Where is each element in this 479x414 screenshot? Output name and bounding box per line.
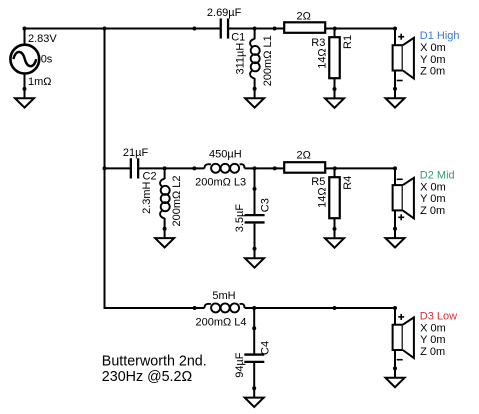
svg-text:D2 Mid: D2 Mid <box>420 170 455 182</box>
svg-text:X 0m: X 0m <box>420 181 446 193</box>
svg-text:Z 0m: Z 0m <box>420 66 445 78</box>
ground at D1 <box>386 89 405 108</box>
inductor L2 <box>160 168 170 228</box>
wire: middle horizontal net bus to C2 left plate <box>105 167 131 169</box>
svg-text:C3: C3 <box>260 198 272 212</box>
caption line 1: Butterworth 2nd. <box>102 354 207 370</box>
capacitor C2 <box>131 158 138 178</box>
node dot: bus junction middle <box>103 166 107 170</box>
label 5mH <box>212 290 235 302</box>
D2 plus sign <box>398 214 404 220</box>
node dot: R3 left pin <box>273 27 277 31</box>
node dot: speaker D2 top pin <box>393 166 397 170</box>
label C4 (rotated) <box>259 341 271 355</box>
D2 minus sign <box>397 178 403 180</box>
node dot: speaker D1 top pin <box>393 27 397 31</box>
node dot: C3 top pin <box>253 187 257 191</box>
svg-text:Butterworth 2nd.: Butterworth 2nd. <box>102 354 207 370</box>
label R5 <box>311 176 325 188</box>
svg-text:200mΩ L1: 200mΩ L1 <box>262 35 274 86</box>
node dot: speaker D2 bottom pin <box>393 227 397 231</box>
svg-text:Y 0m: Y 0m <box>420 54 445 66</box>
speaker D2 <box>393 168 414 228</box>
label 450µH <box>209 149 242 161</box>
svg-text:14Ω: 14Ω <box>317 48 329 68</box>
svg-text:200mΩ L2: 200mΩ L2 <box>171 175 183 226</box>
node dot: C3 bottom pin <box>253 247 257 251</box>
D3 minus sign <box>397 359 403 361</box>
svg-text:R1: R1 <box>342 35 354 49</box>
svg-text:R5: R5 <box>311 176 325 188</box>
label R3 <box>311 37 325 49</box>
label D3 Z 0m <box>420 346 445 358</box>
node dot: R4 bottom pin <box>333 227 337 231</box>
svg-text:Y 0m: Y 0m <box>420 334 445 346</box>
wire: top horizontal net from C1 right plate to speaker D1 <box>229 28 395 30</box>
inductor L3 <box>204 164 244 173</box>
svg-text:2.3mH: 2.3mH <box>141 181 153 213</box>
inductor L1 <box>250 29 260 89</box>
wire: middle horizontal net C2 right plate to L3 coil <box>139 167 205 169</box>
node dot: C2 right pin / L2 top <box>163 166 167 170</box>
label 2.3mH (rotated) <box>141 181 153 213</box>
node dot: L4 left pin <box>193 306 197 310</box>
node dot: C4 top pin <box>252 326 256 330</box>
label C3 (rotated) <box>260 198 272 212</box>
svg-text:D1 High: D1 High <box>420 30 460 42</box>
node dot: bus junction top <box>103 27 107 31</box>
label 311µH (rotated) <box>235 43 247 75</box>
node dot: R5 right pin / R4 top <box>333 166 337 170</box>
node dot: speaker D1 bottom pin <box>393 87 397 91</box>
label D2 Mid <box>420 170 455 182</box>
label 3.5µF (rotated) <box>234 204 246 233</box>
label 200mΩ L3 <box>195 177 246 189</box>
label 2.69µF <box>207 7 242 19</box>
node dot: L4 right pin / C4 node <box>252 306 256 310</box>
label C1 <box>231 31 245 43</box>
svg-text:2Ω: 2Ω <box>297 11 311 23</box>
inductor L4 <box>204 303 244 312</box>
svg-text:D3 Low: D3 Low <box>420 311 457 323</box>
svg-text:2.69µF: 2.69µF <box>207 7 242 19</box>
caption line 2: 230Hz @5.2Ω <box>102 369 193 385</box>
svg-text:Z 0m: Z 0m <box>420 205 445 217</box>
label 14Ω (R4 value, rotated) <box>317 187 329 207</box>
svg-text:R3: R3 <box>311 37 325 49</box>
resistor R4 <box>329 168 340 229</box>
svg-text:2.83V: 2.83V <box>28 33 57 45</box>
ground at D3 <box>386 368 405 387</box>
svg-text:C4: C4 <box>259 341 271 355</box>
speaker D3 <box>393 308 414 368</box>
svg-text:450µH: 450µH <box>209 149 242 161</box>
ground at R1 <box>325 89 344 108</box>
label 200mΩ L2 (rotated) <box>171 175 183 226</box>
label D1 Z 0m <box>420 66 445 78</box>
resistor R1 <box>329 29 340 90</box>
label 94µF (rotated) <box>234 352 246 378</box>
D1 minus sign <box>397 80 403 82</box>
label R1 (rotated) <box>342 35 354 49</box>
svg-text:14Ω: 14Ω <box>317 187 329 207</box>
label 0s <box>41 53 53 65</box>
node dot: L3 left pin <box>192 166 196 170</box>
svg-text:R4: R4 <box>342 176 354 190</box>
ground at R4 <box>325 229 344 248</box>
node dot: source top pin <box>23 27 27 31</box>
node dot: R3 right pin / R1 top <box>333 27 337 31</box>
label 1mΩ <box>28 76 52 88</box>
label D3 Y 0m <box>420 334 445 346</box>
speaker D1 <box>393 29 414 89</box>
capacitor C3 <box>245 168 265 248</box>
label D1 X 0m <box>420 42 446 54</box>
wire: top horizontal net from source to C1 left plate <box>25 28 221 30</box>
resistor R5 <box>284 162 325 173</box>
svg-text:Y 0m: Y 0m <box>420 193 445 205</box>
svg-text:C2: C2 <box>143 171 157 183</box>
wire: bottom horizontal net L4 coil to speaker D3 <box>245 307 396 309</box>
D1 plus sign <box>398 34 404 40</box>
label D1 Y 0m <box>420 54 445 66</box>
svg-text:200mΩ L4: 200mΩ L4 <box>196 317 247 329</box>
svg-text:230Hz @5.2Ω: 230Hz @5.2Ω <box>102 369 193 385</box>
label D2 Z 0m <box>420 205 445 217</box>
ground at C3 <box>245 249 264 268</box>
node dot: speaker D3 top pin <box>393 306 397 310</box>
ground at L2 <box>155 229 174 248</box>
svg-text:X 0m: X 0m <box>420 322 446 334</box>
resistor R3 <box>284 22 325 33</box>
capacitor C4 <box>244 308 264 388</box>
ground at source <box>15 89 34 108</box>
svg-text:3.5µF: 3.5µF <box>234 204 246 233</box>
svg-text:0s: 0s <box>41 53 53 65</box>
wire: bottom horizontal net bus corner to L4 coil <box>104 307 205 309</box>
D3 plus sign <box>398 314 404 320</box>
label D3 X 0m <box>420 322 446 334</box>
label 200mΩ L1 (rotated) <box>262 35 274 86</box>
label 14Ω (R1 value, rotated) <box>317 48 329 68</box>
node dot: source bottom pin <box>23 87 27 91</box>
label 2Ω (R3 value) <box>297 11 311 23</box>
node dot: C1 right pin / node to L1 <box>253 27 257 31</box>
ground at C4 <box>245 388 264 407</box>
label D2 Y 0m <box>420 193 445 205</box>
label C2 <box>143 171 157 183</box>
svg-text:1mΩ: 1mΩ <box>28 76 52 88</box>
svg-text:2Ω: 2Ω <box>297 150 311 162</box>
svg-text:C1: C1 <box>231 31 245 43</box>
label 2Ω (R5 value) <box>297 150 311 162</box>
label D2 X 0m <box>420 181 446 193</box>
label D1 High <box>420 30 460 42</box>
wire: middle horizontal net L3 coil to speaker D2 <box>245 167 396 169</box>
label 200mΩ L4 <box>196 317 247 329</box>
label D3 Low <box>420 311 457 323</box>
label 21µF <box>123 147 149 159</box>
svg-text:5mH: 5mH <box>212 290 235 302</box>
label R4 (rotated) <box>342 176 354 190</box>
node dot: L3 right pin / C3 node <box>253 166 257 170</box>
svg-text:21µF: 21µF <box>123 147 149 159</box>
svg-text:94µF: 94µF <box>234 352 246 378</box>
node dot: bottom net mid junction <box>333 306 337 310</box>
wire: main vertical bus <box>104 28 106 309</box>
node dot: R5 left pin <box>273 166 277 170</box>
svg-text:X 0m: X 0m <box>420 42 446 54</box>
node dot: L2 bottom pin <box>163 227 167 231</box>
label 2.83V <box>28 33 57 45</box>
capacitor C1 <box>221 18 228 38</box>
svg-text:200mΩ L3: 200mΩ L3 <box>195 177 246 189</box>
ground at L1 <box>245 89 264 108</box>
node dot: R1 bottom pin <box>333 87 337 91</box>
node dot: C1 left pin <box>192 27 196 31</box>
AC source V1 <box>10 29 39 89</box>
node dot: speaker D3 bottom pin <box>393 366 397 370</box>
node dot: L1 bottom pin <box>253 87 257 91</box>
svg-text:Z 0m: Z 0m <box>420 346 445 358</box>
ground at D2 <box>386 229 405 248</box>
node dot: C4 bottom pin <box>252 386 256 390</box>
svg-text:311µH: 311µH <box>235 43 247 75</box>
